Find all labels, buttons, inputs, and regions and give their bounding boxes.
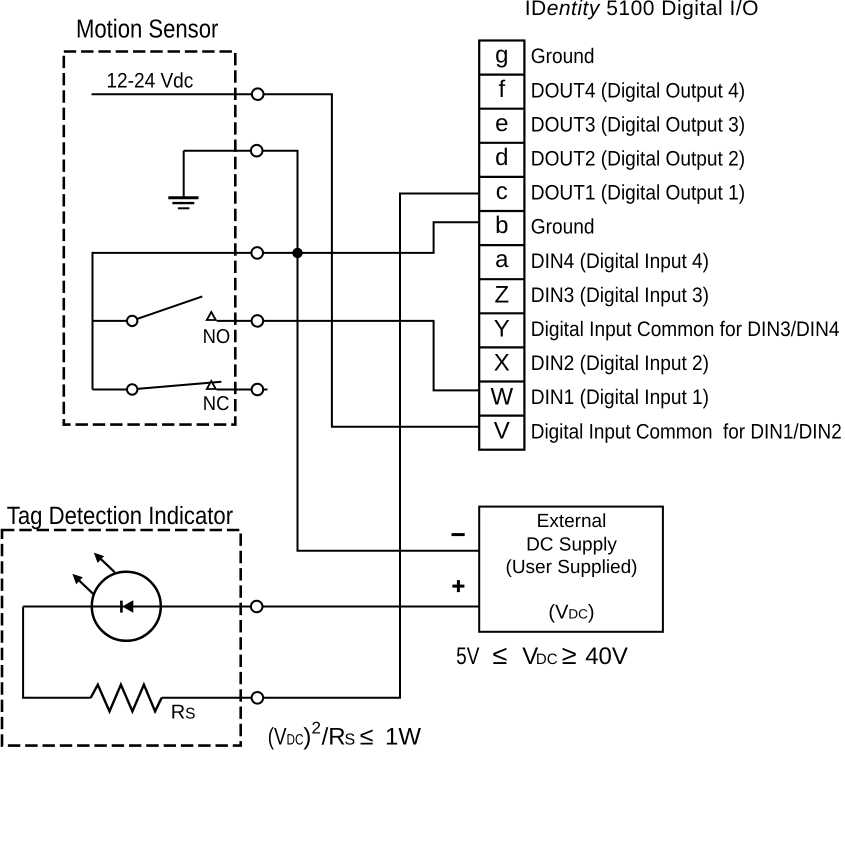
svg-text:Digital Input Common for DIN1: Digital Input Common for DIN1/DIN2 xyxy=(531,420,842,443)
svg-text:W: W xyxy=(490,384,513,411)
terminal block U1 xyxy=(479,41,524,450)
switch NO arm xyxy=(137,296,202,319)
motion sensor enclosure (dashed) xyxy=(64,52,236,425)
svg-text:(User Supplied): (User Supplied) xyxy=(506,557,638,578)
wire NO feed xyxy=(93,320,129,322)
svg-text:Motion Sensor: Motion Sensor xyxy=(76,14,219,44)
tag detection enclosure (dashed) xyxy=(2,530,241,746)
plus terminal xyxy=(452,580,464,592)
terminal circle Rs out xyxy=(252,692,264,704)
svg-text:a: a xyxy=(495,246,509,273)
ground xyxy=(168,151,198,209)
svg-text:g: g xyxy=(495,42,508,69)
svg-text:Digital Input Common for DIN3/: Digital Input Common for DIN3/DIN4 xyxy=(531,318,840,341)
svg-text:X: X xyxy=(494,350,510,377)
svg-text:d: d xyxy=(495,144,508,171)
wire DOUT1 to resistor xyxy=(162,194,480,698)
svg-text:DOUT4 (Digital Output 4): DOUT4 (Digital Output 4) xyxy=(531,79,745,102)
svg-text:NO: NO xyxy=(203,326,231,348)
power supply PS1 box xyxy=(479,507,663,632)
svg-text:DIN3 (Digital Input 3): DIN3 (Digital Input 3) xyxy=(531,284,709,307)
switch NC arm xyxy=(137,382,221,389)
terminal circle ground xyxy=(251,145,263,157)
svg-text:DIN4 (Digital Input 4): DIN4 (Digital Input 4) xyxy=(531,250,709,273)
svg-text:12-24 Vdc: 12-24 Vdc xyxy=(106,70,193,93)
svg-text:Y: Y xyxy=(494,315,510,342)
svg-text:External: External xyxy=(537,511,607,532)
terminal circle LED plus xyxy=(251,601,263,613)
wire NO to terminal W xyxy=(217,321,480,391)
svg-text:Tag Detection Indicator: Tag Detection Indicator xyxy=(7,502,233,530)
wire ground net to DC supply minus xyxy=(184,151,480,551)
wire switch common to terminal b xyxy=(93,222,480,253)
contact NO triangle xyxy=(207,312,216,320)
resistor Rs xyxy=(91,685,162,712)
svg-text:b: b xyxy=(495,212,508,239)
minus terminal xyxy=(452,533,465,536)
node junction on ground net xyxy=(292,248,302,258)
wire switch left vertical xyxy=(92,252,94,390)
svg-text:Z: Z xyxy=(494,281,509,308)
contact NC triangle xyxy=(207,381,216,389)
wire resistor to LED loop xyxy=(23,607,91,698)
svg-text:V: V xyxy=(494,418,510,445)
svg-text:c: c xyxy=(496,178,508,205)
svg-text:DIN2 (Digital Input 2): DIN2 (Digital Input 2) xyxy=(531,352,709,375)
svg-text:DOUT3 (Digital Output 3): DOUT3 (Digital Output 3) xyxy=(531,113,745,136)
switch NO pivot xyxy=(127,316,137,326)
svg-text:IDentity 5100 Digital I/O: IDentity 5100 Digital I/O xyxy=(525,0,759,20)
svg-text:DIN1 (Digital Input 1): DIN1 (Digital Input 1) xyxy=(531,386,709,409)
wire LED row to DC supply plus xyxy=(23,606,479,608)
svg-text:DOUT2 (Digital Output 2): DOUT2 (Digital Output 2) xyxy=(531,148,745,171)
svg-text:DOUT1 (Digital Output 1): DOUT1 (Digital Output 1) xyxy=(531,182,745,205)
svg-text:Ground: Ground xyxy=(531,216,595,239)
wire NC stub xyxy=(217,389,268,391)
LED D1 circle xyxy=(92,572,161,641)
wire NC feed xyxy=(93,389,129,391)
svg-text:DC Supply: DC Supply xyxy=(526,534,617,555)
svg-text:NC: NC xyxy=(203,393,230,415)
LED emission arrow 1 xyxy=(94,553,115,573)
svg-text:e: e xyxy=(495,110,508,137)
switch NC pivot xyxy=(127,384,137,394)
LED D1 diode xyxy=(121,600,133,613)
terminal circle NO xyxy=(252,315,264,327)
LED emission arrow 2 xyxy=(72,574,93,594)
svg-text:Ground: Ground xyxy=(531,45,595,68)
terminal circle common xyxy=(251,247,263,259)
terminal circle 12-24Vdc xyxy=(252,88,264,100)
wire 12-24Vdc to terminal V xyxy=(92,94,480,427)
svg-text:f: f xyxy=(498,76,505,103)
terminal circle NC xyxy=(252,384,264,396)
svg-text:RS: RS xyxy=(171,702,196,724)
